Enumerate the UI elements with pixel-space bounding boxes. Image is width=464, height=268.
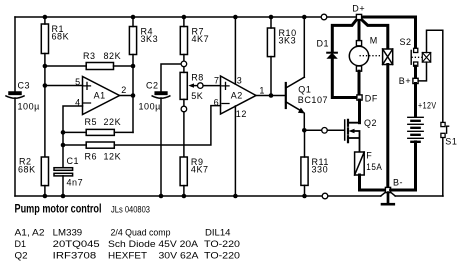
switch S2 bbox=[411, 48, 418, 66]
wire A2 pin12 power bbox=[234, 106, 236, 196]
svg-text:15A: 15A bbox=[366, 162, 382, 172]
resistor R9 bbox=[180, 157, 187, 186]
wire R3 left bbox=[45, 65, 86, 67]
svg-text:C3: C3 bbox=[18, 80, 31, 90]
wire fuse bottom to B- bbox=[360, 175, 386, 190]
battery +12V bbox=[414, 84, 417, 117]
wire S1 bottom to rail bbox=[442, 138, 444, 196]
wire R4 bottom column to R5 bbox=[132, 55, 134, 133]
svg-text:R3: R3 bbox=[83, 51, 96, 61]
svg-text:30V 62A: 30V 62A bbox=[159, 251, 199, 261]
svg-text:HEXFET: HEXFET bbox=[108, 251, 148, 261]
svg-text:B-: B- bbox=[393, 178, 403, 188]
wire R3 right bbox=[114, 65, 134, 67]
motor M bbox=[349, 41, 368, 72]
terminal B- bbox=[385, 187, 390, 192]
wire C2 bottom bbox=[160, 98, 162, 196]
wire Q1 base bbox=[271, 95, 286, 97]
svg-text:A1, A2: A1, A2 bbox=[15, 228, 45, 238]
wire left edge down to C3 bbox=[14, 17, 16, 92]
svg-text:100µ: 100µ bbox=[139, 102, 161, 112]
svg-text:1: 1 bbox=[259, 86, 265, 96]
capacitor C2 bbox=[152, 92, 170, 98]
svg-text:+12V: +12V bbox=[418, 101, 437, 111]
wire A2 pin3 power bbox=[234, 17, 236, 84]
wire R8 terminal to R9 bbox=[183, 112, 185, 157]
wire R9 bottom bbox=[183, 186, 185, 196]
lamp L2 bbox=[422, 53, 430, 63]
resistor R3 bbox=[86, 63, 113, 70]
svg-text:12K: 12K bbox=[104, 151, 122, 161]
resistor R5 bbox=[86, 129, 114, 135]
resistor R1 bbox=[41, 24, 48, 54]
wire R11 bottom bbox=[304, 185, 306, 196]
wire bottom rail bbox=[15, 195, 443, 197]
node R7/R8 terminal bbox=[181, 61, 187, 67]
svg-text:7: 7 bbox=[214, 76, 220, 86]
svg-text:12: 12 bbox=[236, 109, 247, 119]
dotted link S2 to lamp2 bbox=[412, 56, 422, 58]
wire A1 pin5 bbox=[45, 85, 83, 87]
wire top rail thin bbox=[15, 16, 357, 18]
transistor Q1 bbox=[286, 77, 305, 113]
capacitor C1 bbox=[54, 168, 73, 176]
svg-text:C1: C1 bbox=[67, 156, 80, 166]
R8 wiper arrow bbox=[188, 83, 197, 87]
wire R1 top bbox=[44, 17, 46, 24]
op-amp A2 bbox=[221, 76, 257, 114]
svg-text:TO-220: TO-220 bbox=[204, 239, 240, 249]
svg-text:20TQ045: 20TQ045 bbox=[53, 239, 100, 249]
svg-text:4n7: 4n7 bbox=[67, 178, 84, 188]
svg-text:R6: R6 bbox=[85, 151, 98, 161]
svg-text:LM339: LM339 bbox=[53, 228, 82, 238]
svg-text:S1: S1 bbox=[445, 137, 457, 147]
svg-text:Q2: Q2 bbox=[364, 118, 377, 128]
terminal DF bbox=[357, 95, 362, 100]
wire R11 top bbox=[304, 130, 306, 157]
wire R4 top bbox=[132, 17, 134, 27]
svg-text:A1: A1 bbox=[94, 91, 106, 101]
svg-text:4K7: 4K7 bbox=[191, 165, 209, 175]
svg-text:5K: 5K bbox=[191, 91, 203, 101]
wire A2 pin7 bbox=[203, 85, 220, 87]
wire S2 bottom to B+ bbox=[414, 66, 417, 78]
svg-text:2/4 Quad comp: 2/4 Quad comp bbox=[111, 228, 171, 238]
lamp L1 bbox=[383, 49, 393, 65]
svg-text:A2: A2 bbox=[231, 91, 243, 101]
resistor R4 bbox=[129, 27, 136, 55]
wire Q1 collector up bbox=[303, 17, 305, 77]
svg-text:F: F bbox=[366, 151, 372, 161]
wire R5 left bbox=[63, 131, 86, 133]
wire C3 bottom to bottom rail bbox=[14, 98, 16, 196]
svg-text:D1: D1 bbox=[317, 39, 330, 49]
diode D1 bbox=[327, 53, 337, 59]
wire DF to Q2 drain bbox=[358, 100, 361, 123]
switch S1 bbox=[441, 122, 449, 137]
node R8 wiper terminal bbox=[198, 83, 204, 89]
svg-text:M: M bbox=[370, 35, 378, 45]
svg-text:DF: DF bbox=[365, 94, 378, 104]
svg-text:6: 6 bbox=[214, 97, 220, 107]
svg-text:4K7: 4K7 bbox=[192, 34, 210, 44]
wire A2 output bbox=[256, 95, 271, 97]
svg-text:22K: 22K bbox=[104, 117, 122, 127]
wire Q1 emitter down bbox=[303, 113, 305, 130]
svg-text:R5: R5 bbox=[85, 117, 98, 127]
resistor R10 bbox=[267, 28, 274, 57]
wire C2 top bbox=[161, 64, 181, 92]
resistor R11 bbox=[301, 157, 308, 185]
svg-text:S2: S2 bbox=[400, 37, 412, 47]
wire R10 top bbox=[270, 17, 272, 28]
svg-text:Q2: Q2 bbox=[15, 251, 28, 261]
op-amp A1 bbox=[83, 77, 120, 115]
wire A1 output bbox=[120, 95, 134, 97]
wire connector to Q2 gate bbox=[327, 129, 344, 131]
node connector top rail bbox=[321, 14, 327, 20]
svg-text:100µ: 100µ bbox=[18, 102, 40, 112]
transistor Q2 MOSFET bbox=[345, 120, 360, 152]
svg-text:3K3: 3K3 bbox=[141, 34, 159, 44]
wire A1 pin4 feedback bbox=[63, 106, 83, 168]
dotted link motor to lamp bbox=[360, 55, 382, 57]
wire lamp1 down to B- bbox=[386, 65, 389, 188]
wire motor to DF bbox=[358, 71, 361, 94]
wire emitter to gate bbox=[304, 129, 321, 131]
wire R6 left bbox=[63, 144, 86, 146]
svg-text:330: 330 bbox=[312, 165, 329, 175]
wire D+ fan center to motor bbox=[358, 20, 361, 41]
ground bbox=[382, 193, 394, 205]
capacitor C3 bbox=[6, 92, 24, 98]
svg-text:2: 2 bbox=[121, 85, 127, 95]
svg-text:3K3: 3K3 bbox=[279, 36, 297, 46]
wire R1 bottom to R2 top bbox=[44, 54, 46, 158]
wire R6 right to A2 pin6 bbox=[114, 106, 220, 145]
node R8 bottom terminal bbox=[181, 106, 187, 112]
svg-text:B+: B+ bbox=[399, 76, 411, 86]
svg-text:82K: 82K bbox=[104, 51, 122, 61]
svg-text:TO-220: TO-220 bbox=[204, 251, 240, 261]
svg-text:BC107: BC107 bbox=[298, 95, 328, 105]
wire bottom rail diagonals into B- bbox=[381, 192, 395, 196]
fuse F bbox=[355, 152, 365, 175]
terminal B+ bbox=[413, 78, 418, 83]
terminal D+ bbox=[356, 14, 361, 19]
node connector bottom rail bbox=[322, 193, 328, 199]
title bbox=[15, 204, 241, 261]
svg-text:R8: R8 bbox=[191, 72, 204, 82]
wire lamp2 bottom to B+ bbox=[418, 62, 426, 81]
wire R8 bottom bbox=[183, 99, 185, 106]
svg-text:3: 3 bbox=[237, 75, 243, 85]
resistor R7 bbox=[180, 27, 187, 55]
wire D+ thick rail right bbox=[362, 17, 416, 48]
wire D1 to DF bbox=[332, 58, 356, 97]
node connector gate bbox=[322, 128, 328, 134]
svg-text:C2: C2 bbox=[146, 80, 159, 90]
wire R8 top bbox=[183, 67, 185, 73]
wire R7 bottom bbox=[183, 55, 185, 62]
wire D+ fan left to D1 bbox=[332, 19, 357, 52]
wire R5 right bbox=[114, 131, 133, 133]
wire R2 bottom bbox=[44, 186, 46, 196]
svg-text:Sch Diode 45V 20A: Sch Diode 45V 20A bbox=[108, 239, 198, 249]
svg-text:IRF3708: IRF3708 bbox=[53, 251, 96, 261]
svg-text:68K: 68K bbox=[52, 32, 70, 42]
svg-text:D1: D1 bbox=[15, 239, 27, 249]
resistor R6 bbox=[86, 142, 114, 148]
wire D+ fan right to lamp bbox=[361, 19, 388, 49]
wire B- to battery bottom bbox=[391, 142, 416, 190]
svg-text:Q1: Q1 bbox=[298, 85, 311, 95]
svg-text:JLs 040803: JLs 040803 bbox=[111, 205, 150, 215]
svg-text:DIL14: DIL14 bbox=[205, 228, 231, 238]
wire C1 bottom bbox=[62, 176, 64, 196]
wire lamp2 top loop to S1 bbox=[427, 30, 443, 122]
potentiometer R8 bbox=[180, 72, 187, 99]
svg-text:Pump motor control: Pump motor control bbox=[15, 204, 102, 216]
resistor R2 bbox=[41, 157, 48, 186]
wire R10 bottom bbox=[270, 57, 272, 96]
svg-text:D+: D+ bbox=[352, 4, 365, 14]
wire R7 top bbox=[183, 17, 185, 27]
svg-text:68K: 68K bbox=[18, 165, 36, 175]
